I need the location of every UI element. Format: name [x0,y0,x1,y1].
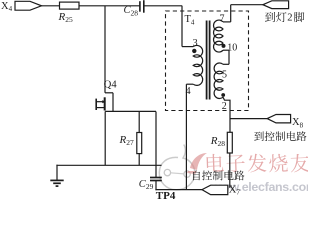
svg-text:Q4: Q4 [104,80,118,91]
secondary lower winding 5-2 [214,63,223,98]
svg-text:2: 2 [222,101,227,112]
secondary upper polarity dot [222,44,226,48]
wire to X8 connector [230,118,267,120]
capacitor C29 [150,177,162,179]
primary pin4 lead [186,83,193,85]
Q4 source lead to ground rail [104,111,106,165]
link between secondary windings [223,49,229,51]
svg-text:3: 3 [193,38,198,49]
text 到控制电路 [254,132,264,142]
secondary pin7 lead [230,5,232,22]
wire R28 down to X7 node [229,153,231,188]
wire source node to C29 [155,112,157,178]
text 自控制电路 [193,170,200,180]
transistor Q4 (MOSFET) [104,6,106,93]
wire R25 to C28 with junction to Q4 [79,5,140,7]
wire down to primary pin3 [181,6,183,47]
ground lead [56,165,58,181]
capacitor C28 [139,1,141,12]
primary polarity dot [192,49,196,53]
R27 lead to ground rail [138,154,140,166]
svg-text:TP4: TP4 [156,190,176,200]
resistor R28 [227,132,232,153]
primary winding pin3 lead [182,46,193,48]
resistor R25 [60,2,80,9]
transformer T4 dashed box [166,11,249,111]
connector X4 [15,1,42,10]
ground symbol [50,179,63,181]
text 到灯2脚 [265,12,275,22]
connector X8 [267,115,290,123]
svg-text:5: 5 [222,70,227,81]
Q4 source node wire [105,110,156,112]
secondary upper winding 7-10 [214,20,223,52]
connector to lamp pin2 [263,1,289,9]
svg-text:2: 2 [287,13,292,24]
wire X4 to R25 [42,5,60,7]
bottom node wire to X7 [155,189,202,191]
decorative watermark (not labelled further) [159,145,195,190]
secondary lower polarity dot [221,93,225,97]
wire down to R27 [138,112,140,133]
resistor R27 [137,133,142,154]
C29 lead to bottom node [155,181,157,191]
wire C28 to transformer primary [144,5,182,7]
primary winding 3-4 [193,45,202,85]
pin2 lead to R28 [223,97,230,132]
wire pin7 to lamp connector [231,4,263,6]
transformer core [206,21,208,100]
connector X7 [202,185,228,194]
ground rail [56,164,161,166]
svg-text:7: 7 [220,14,225,25]
